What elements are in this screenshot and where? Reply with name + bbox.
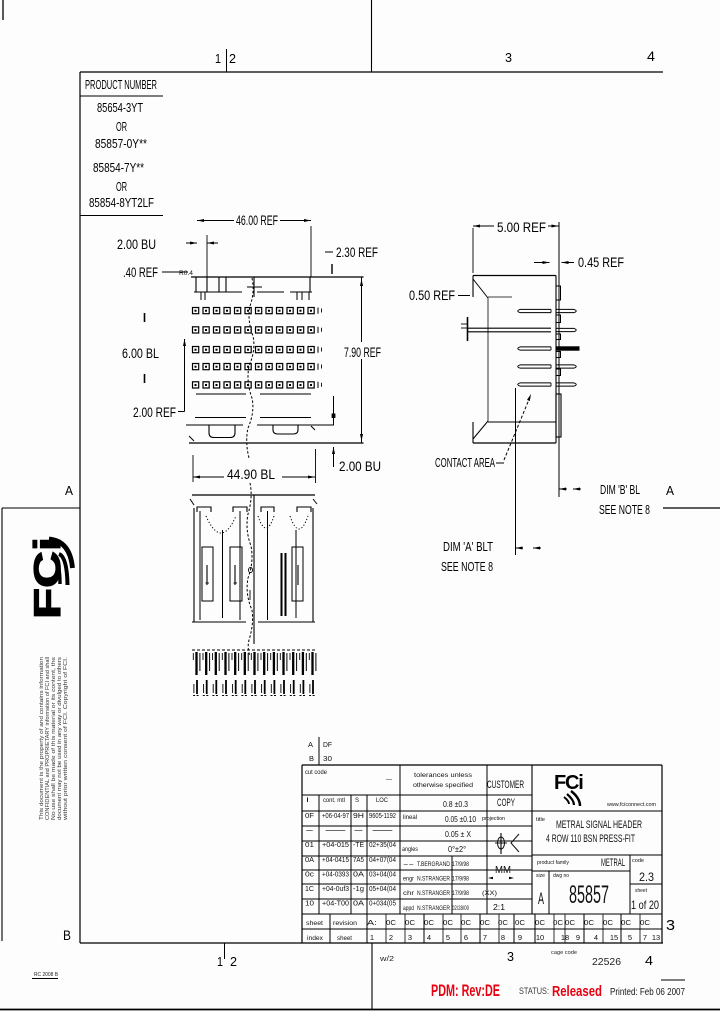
svg-text:85857: 85857: [569, 881, 609, 909]
svg-text:engr: engr: [403, 877, 414, 883]
svg-text:5: 5: [446, 933, 450, 942]
front view: dimension 7.90 REF: [361, 277, 363, 342]
svg-text:0+034(05: 0+034(05: [369, 901, 396, 908]
bottom view: break line: [247, 483, 253, 656]
svg-text:LOC: LOC: [376, 797, 388, 804]
svg-text:02/28/00: 02/28/00: [452, 905, 469, 912]
svg-text:.40 REF: .40 REF: [123, 265, 158, 280]
svg-text:0A: 0A: [353, 901, 364, 908]
svg-text:0.50 REF: 0.50 REF: [409, 288, 455, 303]
left margin column border: [1, 508, 3, 941]
svg-text:-: -: [305, 828, 317, 835]
svg-text:6.00 BL: 6.00 BL: [122, 346, 159, 361]
svg-text:0F: 0F: [305, 813, 314, 820]
side view: DIM B callout: [559, 488, 567, 490]
front view: mounting peg right: [273, 425, 298, 434]
svg-text:cut code: cut code: [305, 770, 328, 776]
svg-text:0C: 0C: [553, 920, 563, 927]
svg-text:FCi: FCi: [27, 537, 68, 619]
side view: contact blades: [518, 309, 551, 312]
svg-text:--: --: [403, 862, 414, 868]
revision strip: [329, 914, 331, 943]
svg-text:44.90 BL: 44.90 BL: [227, 467, 275, 482]
svg-text:3: 3: [408, 933, 412, 942]
right zone divider: [663, 507, 720, 509]
svg-text:2.3: 2.3: [639, 870, 654, 884]
side view: wall sections: [556, 286, 561, 300]
svg-text:+06-04-97: +06-04-97: [322, 813, 349, 820]
bottom page edge: [0, 1009, 720, 1011]
svg-text:www.fciconnect.com: www.fciconnect.com: [606, 802, 656, 808]
svg-text:15: 15: [610, 933, 618, 942]
svg-text:2.00 BU: 2.00 BU: [117, 237, 156, 252]
contact row 5: [193, 382, 199, 388]
svg-text:0.05 ± X: 0.05 ± X: [445, 830, 472, 839]
bottom view: center line: [253, 495, 255, 644]
svg-text:1C: 1C: [305, 886, 314, 893]
svg-text:cont. mtl: cont. mtl: [323, 797, 345, 804]
svg-text:1: 1: [215, 51, 221, 66]
svg-text:sheet: sheet: [635, 888, 647, 894]
svg-text:7: 7: [483, 933, 487, 942]
svg-text:DF: DF: [323, 740, 332, 749]
side view: pcb plane line: [558, 222, 560, 497]
contact row 4: [193, 364, 199, 370]
svg-text:0C: 0C: [498, 920, 508, 927]
svg-text:Printed: Feb 06 2007: Printed: Feb 06 2007: [610, 986, 685, 998]
svg-text:4: 4: [645, 953, 653, 968]
svg-text:4: 4: [647, 49, 656, 64]
svg-text:angles: angles: [402, 847, 418, 853]
svg-text:tolerances unless: tolerances unless: [414, 772, 473, 779]
svg-text:B: B: [309, 754, 314, 763]
svg-text:85654-3YT: 85654-3YT: [97, 100, 143, 115]
bottom view: inner cells: [202, 547, 213, 601]
svg-text:MM: MM: [495, 865, 511, 876]
svg-text:0C: 0C: [640, 920, 650, 927]
svg-text:Released: Released: [552, 983, 602, 1000]
svg-text:2.00 REF: 2.00 REF: [133, 405, 176, 420]
svg-text:SEE NOTE 8: SEE NOTE 8: [441, 559, 493, 574]
front view: flange: [186, 424, 243, 426]
svg-text:0C: 0C: [515, 920, 525, 927]
svg-text:18: 18: [561, 933, 569, 942]
svg-text:2: 2: [230, 954, 237, 969]
svg-text:appd: appd: [403, 906, 414, 912]
svg-text:FCi: FCi: [554, 772, 583, 794]
svg-text:T.BERGRAND: T.BERGRAND: [417, 861, 450, 868]
side view: dimension 0.45 REF: [534, 262, 550, 264]
svg-text:0.45 REF: 0.45 REF: [578, 255, 624, 270]
side view: pins right: [556, 309, 576, 312]
svg-text:chr: chr: [403, 891, 414, 897]
svg-text:4: 4: [427, 933, 431, 942]
svg-text:17/9/98: 17/9/98: [452, 876, 469, 883]
svg-text:-TE: -TE: [353, 842, 364, 849]
title block outline: [302, 764, 662, 766]
svg-text:(XX): (XX): [482, 890, 497, 897]
title block right cells lines: [532, 810, 662, 812]
side view: DIM A callout: [516, 547, 524, 549]
svg-text:0°±2°: 0°±2°: [448, 845, 466, 854]
svg-text:-1g: -1g: [353, 886, 364, 893]
svg-text:without prior written consent: without prior written consent of FCI. Co…: [63, 657, 69, 822]
svg-text:46.00 REF: 46.00 REF: [236, 213, 278, 228]
svg-text:01: 01: [305, 842, 314, 849]
svg-text:2: 2: [229, 51, 236, 66]
title block vertical lines left: [318, 795, 320, 914]
svg-text:—: —: [386, 777, 392, 783]
svg-text:7.90 REF: 7.90 REF: [344, 345, 381, 360]
svg-text:3: 3: [505, 50, 512, 65]
svg-text:A: A: [65, 483, 73, 498]
svg-text:CONTACT AREA: CONTACT AREA: [435, 455, 495, 470]
svg-text:PRODUCT NUMBER: PRODUCT NUMBER: [85, 77, 157, 92]
svg-text:17/9/98: 17/9/98: [452, 861, 469, 868]
title block horizontal lines: [302, 794, 532, 796]
svg-text:5: 5: [628, 933, 632, 942]
bottom view: outer walls: [193, 508, 195, 622]
svg-text:dwg no: dwg no: [553, 873, 569, 879]
front view: dimension 46.00 REF: [197, 220, 234, 222]
svg-text:N.STRANGER: N.STRANGER: [417, 905, 450, 912]
svg-text:lineal: lineal: [403, 815, 417, 821]
sheet border frame: [2, 0, 4, 20]
svg-text:OR: OR: [116, 179, 127, 194]
svg-text:+04-015: +04-015: [322, 842, 349, 849]
svg-text:N.STRANGER: N.STRANGER: [417, 890, 450, 897]
svg-text:3: 3: [507, 949, 514, 964]
svg-text:DIM 'A' BLT: DIM 'A' BLT: [443, 539, 493, 554]
svg-text:code: code: [632, 858, 644, 864]
svg-text:+04-0393: +04-0393: [322, 871, 349, 878]
svg-text:9H: 9H: [353, 813, 364, 820]
svg-text:03+04(04: 03+04(04: [369, 871, 396, 878]
svg-text:0c: 0c: [305, 871, 315, 878]
title block mini rev table: [318, 737, 320, 765]
front view: mounting peg left: [209, 425, 235, 438]
FCI logo title block: [554, 772, 583, 806]
svg-text:cage code: cage code: [551, 950, 577, 956]
svg-text:2: 2: [389, 933, 393, 942]
svg-text:0C: 0C: [621, 920, 631, 927]
front view: break line (wavy): [247, 278, 254, 458]
svg-text:85857-0Y**: 85857-0Y**: [95, 136, 147, 151]
svg-text:N.STRANGER: N.STRANGER: [417, 876, 450, 883]
svg-text:size: size: [536, 873, 545, 879]
front view: body top outline: [191, 276, 364, 278]
svg-text:w/2: w/2: [379, 956, 394, 963]
svg-text:5.00 REF: 5.00 REF: [497, 220, 546, 235]
projection symbol: [500, 833, 502, 854]
svg-text:22526: 22526: [592, 956, 621, 968]
bottom view: bottom outline: [192, 621, 246, 623]
bottom view: top brackets: [197, 507, 211, 512]
dimension 44.90 BL: [193, 476, 224, 478]
front view: dimension 2.00 BU bottom: [333, 396, 335, 425]
svg-text:0.05 ±0.10: 0.05 ±0.10: [445, 815, 476, 824]
svg-text:1: 1: [370, 933, 374, 942]
svg-text:+04-T00: +04-T00: [322, 901, 349, 908]
svg-text:17/9/98: 17/9/98: [452, 890, 469, 897]
svg-text:7: 7: [643, 933, 647, 942]
svg-text:SEE NOTE 8: SEE NOTE 8: [599, 502, 650, 517]
side view: long blade row2: [468, 327, 551, 329]
svg-text:+04-0uf3: +04-0uf3: [322, 886, 349, 893]
svg-text:product family: product family: [537, 860, 569, 866]
front view: body bottom outline: [189, 442, 364, 444]
front view: lines below grid: [196, 393, 246, 395]
svg-text:85854-7Y**: 85854-7Y**: [93, 160, 144, 175]
svg-text:1 of 20: 1 of 20: [631, 898, 659, 912]
svg-text:PDM: Rev:DE: PDM: Rev:DE: [431, 982, 500, 1000]
svg-text:A: A: [308, 740, 313, 749]
svg-text:9: 9: [576, 933, 580, 942]
svg-text:-: -: [353, 828, 367, 835]
svg-text:1: 1: [217, 954, 223, 969]
svg-text:METRAL: METRAL: [601, 857, 625, 869]
svg-text:-: -: [369, 828, 404, 835]
side view: dimension 5.00 REF: [473, 225, 494, 227]
svg-text:2.30 REF: 2.30 REF: [336, 245, 378, 260]
svg-text:A: A: [666, 483, 674, 498]
front view: polarization teeth: [195, 277, 197, 292]
svg-text:otherwise specified: otherwise specified: [413, 782, 473, 789]
FCI logo left margin arcs: [49, 539, 73, 568]
contact row 3: [193, 347, 199, 353]
svg-text:sheet: sheet: [306, 921, 323, 927]
pin field below bottom view: [192, 649, 316, 651]
bottom view: top outline: [192, 494, 315, 496]
svg-text:RC 2008 B: RC 2008 B: [34, 972, 59, 978]
svg-text:10: 10: [536, 933, 544, 942]
svg-text:+04-0415: +04-0415: [322, 857, 349, 864]
bottom view: dotted arcs: [206, 516, 236, 533]
svg-text:0C: 0C: [424, 920, 434, 927]
svg-text:title: title: [536, 817, 545, 823]
contact row 1: [193, 308, 199, 314]
svg-text:0C: 0C: [565, 920, 575, 927]
svg-text:0C: 0C: [386, 920, 396, 927]
svg-text:0C: 0C: [443, 920, 453, 927]
svg-text:sheet: sheet: [337, 936, 352, 942]
svg-text:0C: 0C: [480, 920, 490, 927]
svg-text:9605-1192: 9605-1192: [369, 813, 396, 820]
svg-text:DIM 'B' BL: DIM 'B' BL: [600, 482, 640, 497]
svg-text:04+07(04: 04+07(04: [369, 857, 396, 864]
svg-text:10: 10: [305, 901, 314, 908]
FCI logo left margin (rotated): [27, 537, 68, 619]
svg-text:0A: 0A: [305, 857, 314, 864]
svg-text:revision: revision: [333, 921, 357, 927]
svg-text:30: 30: [323, 754, 332, 763]
svg-text:2.00 BU: 2.00 BU: [339, 459, 381, 474]
svg-text:METRAL SIGNAL HEADER: METRAL SIGNAL HEADER: [556, 819, 642, 831]
svg-text:8: 8: [501, 933, 505, 942]
svg-text:B: B: [63, 928, 71, 943]
svg-text:4 ROW 110 BSN PRESS-FIT: 4 ROW 110 BSN PRESS-FIT: [546, 833, 635, 845]
svg-text:A: A: [538, 889, 544, 908]
svg-text:4: 4: [594, 933, 598, 942]
svg-text:13: 13: [652, 933, 660, 942]
svg-text:2:1: 2:1: [493, 903, 506, 912]
svg-text:COPY: COPY: [497, 797, 515, 809]
product number table: [80, 95, 163, 97]
svg-text:S: S: [355, 797, 360, 804]
svg-text:3: 3: [666, 917, 675, 934]
svg-text:0C: 0C: [535, 920, 545, 927]
svg-text:0C: 0C: [584, 920, 594, 927]
front view: dimension 2.30 REF: [325, 251, 333, 253]
contact row 2: [193, 327, 199, 333]
svg-text:OR: OR: [116, 119, 127, 134]
svg-text:7A5: 7A5: [353, 857, 364, 864]
svg-text:projection: projection: [482, 816, 505, 822]
svg-text:index: index: [307, 936, 323, 942]
svg-text:CUSTOMER: CUSTOMER: [487, 779, 524, 791]
svg-text:0A: 0A: [353, 871, 364, 878]
svg-text:R0.4: R0.4: [179, 271, 194, 277]
svg-text:6: 6: [464, 933, 468, 942]
svg-text:02+35(04: 02+35(04: [369, 842, 396, 849]
bottom view: contact hooks: [206, 565, 208, 585]
svg-text:9: 9: [518, 933, 522, 942]
svg-text:0C: 0C: [405, 920, 415, 927]
svg-text:05+04(04: 05+04(04: [369, 886, 396, 893]
svg-text:STATUS:: STATUS:: [519, 986, 549, 997]
side view: body outline: [473, 275, 556, 277]
svg-text:85854-8YT2LF: 85854-8YT2LF: [89, 195, 154, 210]
svg-text:I: I: [306, 797, 309, 804]
svg-text:A:: A:: [367, 920, 377, 927]
svg-text:0.8 ±0.3: 0.8 ±0.3: [443, 800, 468, 809]
svg-text:0C: 0C: [603, 920, 613, 927]
bottom view: inner verticals: [199, 511, 201, 620]
svg-text:0C: 0C: [461, 920, 471, 927]
